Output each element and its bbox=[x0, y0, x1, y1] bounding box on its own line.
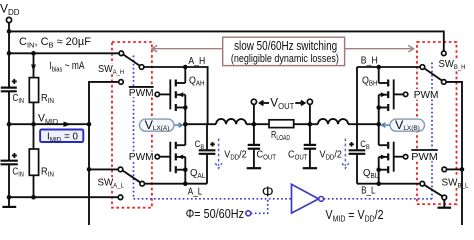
node V_LX(A) oval and arrow bbox=[140, 118, 183, 132]
node phi label bbox=[262, 184, 274, 201]
arrow from annotation box to B switches bbox=[345, 45, 414, 52]
annotation V_MID = V_DD/2 bbox=[326, 207, 384, 224]
inverter U1 (phase splitter) bbox=[292, 184, 324, 213]
junction top rail bbox=[7, 29, 12, 34]
wire V_DD to SW_A_H top contact bbox=[9, 52, 119, 54]
svg-text:PWM: PWM bbox=[414, 89, 439, 101]
transistor Q_AL bbox=[170, 124, 205, 184]
wire B_L node bbox=[357, 183, 420, 185]
svg-text:B_L: B_L bbox=[361, 186, 376, 197]
svg-text:B_H: B_H bbox=[361, 56, 378, 67]
resistor R_IN (top) bbox=[29, 78, 54, 125]
node V_DD terminal bbox=[0, 2, 20, 23]
wire: phi control vertical A side bbox=[133, 56, 135, 199]
node B_H label bbox=[361, 56, 378, 67]
wire V_MID rail bbox=[9, 123, 89, 125]
ground symbol (C_OUT left) bbox=[247, 167, 261, 169]
source phi = 50/60Hz bbox=[186, 206, 251, 221]
node A_L label bbox=[188, 186, 203, 197]
junction A_H bbox=[183, 65, 188, 70]
switch SW_B_L bbox=[420, 167, 469, 200]
wire top V_DD rail across to B side bbox=[9, 31, 444, 51]
junction V_OUT right bbox=[308, 122, 313, 127]
capacitor C_IN (bottom) bbox=[1, 153, 24, 197]
junction B_H bbox=[376, 65, 381, 70]
switch SW_A_H bbox=[97, 51, 144, 84]
arrow from annotation box to A switches bbox=[152, 45, 223, 52]
node V_MID label and arrow bbox=[38, 113, 72, 127]
node A_H label bbox=[188, 56, 205, 67]
wire: phi horizontal rail (inverter output) bbox=[324, 198, 432, 200]
wire V_MID to SW_A_L top contact bbox=[89, 168, 118, 170]
resistor R_IN (bottom) bbox=[29, 124, 54, 197]
junction V_DD / divider bbox=[7, 51, 12, 56]
junction LX(A) bbox=[183, 122, 188, 127]
junction V_MID left bbox=[7, 122, 12, 127]
wire V_MID riser to switches bbox=[89, 82, 119, 225]
transistor Q_AH bbox=[170, 67, 204, 124]
wire: phi source stub bbox=[251, 199, 268, 214]
wire: phi control vertical B side bbox=[431, 63, 433, 199]
svg-text:PWM: PWM bbox=[129, 151, 154, 163]
capacitor C_IN (top) bbox=[1, 79, 24, 161]
wire SW_A_L common to A_L node bbox=[145, 183, 208, 185]
wire inductor A to V_OUT node bbox=[246, 123, 254, 125]
svg-text:slow 50/60Hz switching: slow 50/60Hz switching bbox=[234, 39, 337, 53]
junction V_MID riser bbox=[87, 122, 92, 127]
svg-text:(negligible dynamic losses): (negligible dynamic losses) bbox=[231, 53, 339, 65]
wire SW_B_H bottom contact to V_MID riser B bbox=[446, 82, 462, 225]
junction B_L bbox=[376, 181, 381, 186]
gate drive PWM (Q_BH) bbox=[394, 89, 439, 101]
svg-text:Φ= 50/60Hz: Φ= 50/60Hz bbox=[186, 206, 244, 221]
wire SW_B_L top contact to V_MID riser B bbox=[447, 168, 462, 170]
capacitor C_B (B side) bbox=[349, 67, 371, 184]
wire SW_A_H common to A_H node bbox=[144, 67, 208, 124]
capacitor C_OUT (right) bbox=[288, 124, 316, 167]
svg-text:A_H: A_H bbox=[188, 56, 205, 67]
junction A_L bbox=[183, 181, 188, 186]
wire V_DD rail down bbox=[8, 23, 10, 87]
wire: phi horizontal rail (inverter input) bbox=[134, 198, 292, 200]
capacitor C_OUT (left) bbox=[248, 124, 277, 167]
junction R_IN top branch bbox=[31, 51, 36, 56]
wire B_H node bbox=[357, 66, 420, 68]
annotation box: slow 50/60Hz switching bbox=[223, 37, 345, 65]
wire inductor B to LX(B) bbox=[348, 123, 379, 125]
switch SW_B_H bbox=[420, 51, 469, 84]
ground symbol (input divider) bbox=[2, 197, 16, 207]
gate drive PWM (Q_AL) bbox=[128, 151, 171, 163]
gate drive PWMbar (Q_AH) bbox=[128, 86, 171, 99]
svg-text:A_L: A_L bbox=[188, 186, 203, 197]
junction ground R_IN bbox=[31, 195, 36, 200]
ground symbol (C_OUT right) bbox=[303, 167, 317, 169]
annotation V_DD/2 across C_B (A) bbox=[215, 139, 247, 169]
transistor Q_BH bbox=[362, 67, 394, 124]
value label C_IN, C_B = 20uF bbox=[19, 36, 91, 50]
capacitor C_B (A side) bbox=[195, 124, 216, 184]
annotation I_MID = 0 bbox=[40, 130, 83, 144]
wire LX(A) to inductor bbox=[185, 123, 216, 125]
junction LX(B) bbox=[376, 122, 381, 127]
resistor R_LOAD bbox=[254, 120, 310, 142]
switch SW_A_L bbox=[97, 167, 145, 200]
gate drive PWMbar (Q_BL) bbox=[394, 149, 439, 163]
junction V_MID riser B bbox=[460, 167, 465, 172]
svg-text:PWM: PWM bbox=[129, 87, 154, 99]
junction V_OUT left bbox=[252, 122, 257, 127]
ground symbol (SW_B_L) bbox=[438, 200, 452, 208]
node B_L label bbox=[361, 186, 376, 197]
wire / arrow I_bias bbox=[31, 53, 85, 77]
red dashed enclosure box A (slow switches A side) bbox=[112, 42, 152, 208]
junction V_MID R_IN bbox=[31, 122, 36, 127]
inductor L (A side) bbox=[216, 119, 246, 124]
node V_OUT terminals and label bbox=[251, 96, 312, 125]
junction ground left bbox=[7, 195, 12, 200]
red dashed enclosure box B (slow switches B side) bbox=[417, 42, 457, 204]
transistor Q_BL bbox=[363, 124, 394, 184]
junction V_MID riser / SW_A_L feed bbox=[87, 167, 92, 172]
svg-text:Φ: Φ bbox=[262, 184, 274, 201]
svg-text:PWM: PWM bbox=[411, 151, 438, 163]
wire ground rail to SW_A_L bottom contact bbox=[9, 196, 118, 198]
annotation V_DD/2 across C_B (B) bbox=[320, 139, 349, 169]
node V_LX(B) oval and arrow bbox=[382, 118, 425, 132]
inductor L (B side) bbox=[310, 119, 348, 124]
